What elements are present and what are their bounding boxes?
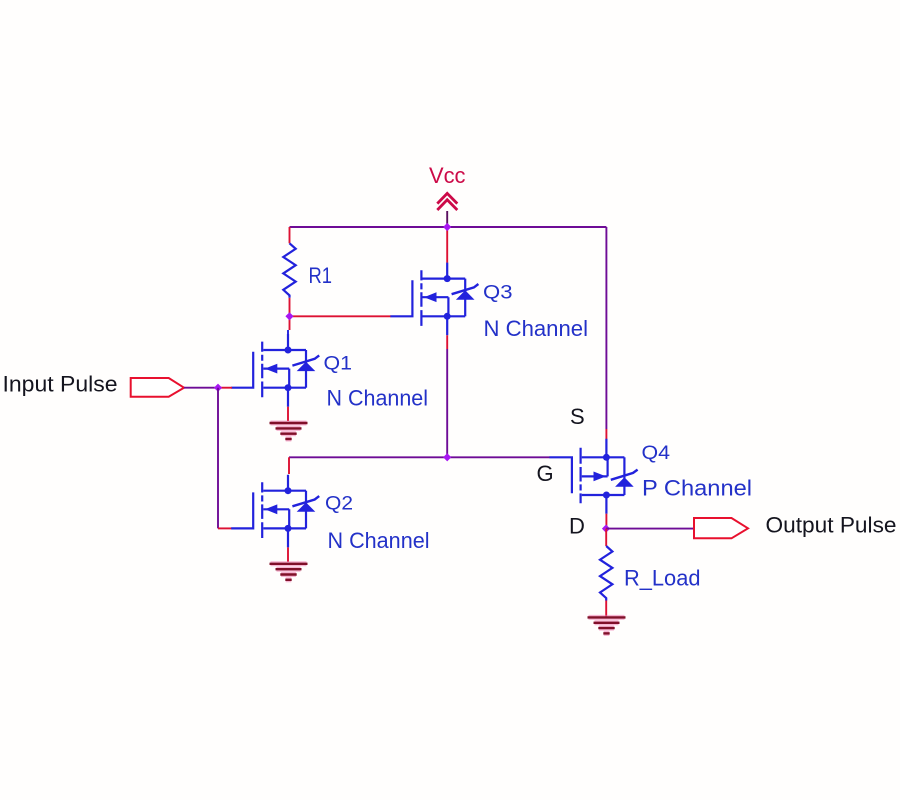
resistor R1 — [283, 243, 295, 297]
ground below R_Load — [588, 617, 626, 633]
svg-text:D: D — [569, 514, 585, 539]
svg-text:Input Pulse: Input Pulse — [3, 371, 118, 396]
wire Q3 source down red — [446, 335, 448, 349]
wire top rail Vcc net — [290, 226, 607, 228]
svg-text:G: G — [537, 461, 554, 486]
node junction Vcc rail (diamond) — [443, 223, 451, 231]
svg-text:N Channel: N Channel — [328, 528, 430, 553]
svg-text:Q1: Q1 — [324, 354, 353, 375]
ground below Q1 — [270, 423, 308, 439]
wire red Q2 source to ground — [287, 547, 289, 561]
svg-text:Q2: Q2 — [325, 494, 353, 515]
wire red Q1 source to ground — [287, 407, 289, 421]
node input junction (diamond) — [214, 384, 222, 392]
svg-text:R_Load: R_Load — [624, 566, 701, 591]
wire blue to Q1 drain — [287, 330, 289, 335]
transistor Q1 — [231, 334, 319, 407]
svg-text:R1: R1 — [309, 263, 333, 288]
transistor Q3 — [390, 263, 478, 336]
svg-text:N Channel: N Channel — [327, 386, 429, 411]
svg-text:Output Pulse: Output Pulse — [766, 513, 897, 538]
svg-text:Q3: Q3 — [483, 283, 513, 304]
wire Q3 source to gate net purple — [446, 349, 448, 457]
node junction R1 bottom (diamond) — [285, 312, 293, 320]
svg-text:S: S — [570, 404, 585, 429]
wire purple output junction to port — [606, 528, 694, 530]
power symbol Vcc double chevron — [437, 193, 457, 210]
wire red junction to Q3 gate — [290, 315, 392, 317]
wire gate net horizontal purple — [289, 456, 550, 458]
svg-text:P Channel: P Channel — [642, 476, 752, 501]
wire right rail down to Q4 source — [605, 227, 607, 429]
wire purple input junction down — [217, 388, 219, 529]
node gate net junction (diamond) — [443, 453, 451, 461]
output port symbol — [694, 518, 748, 538]
Vcc symbol stem — [446, 211, 448, 227]
wire red output junction to R_Load — [605, 529, 607, 546]
wire red right rail lower part — [605, 429, 607, 439]
node output junction (diamond) — [602, 524, 610, 532]
wire red corner down to Q2 drain — [288, 457, 290, 474]
resistor R_Load — [600, 546, 612, 601]
wire red junction to Q1 gate — [218, 387, 232, 389]
wire red R1 bottom to junction — [289, 298, 291, 317]
wire red rail to R1 top — [289, 227, 291, 243]
wire red Vcc to Q3 drain — [446, 227, 448, 263]
transistor Q4 P channel — [550, 439, 638, 514]
svg-text:N Channel: N Channel — [484, 316, 589, 341]
svg-text:Vcc: Vcc — [429, 163, 466, 188]
wire red junction down toward Q1 drain — [289, 316, 291, 330]
wire red R_Load to ground — [605, 601, 607, 617]
input port symbol — [131, 378, 184, 397]
wire red Q4 drain down — [605, 514, 607, 529]
svg-text:Q4: Q4 — [642, 443, 671, 464]
wire input port to junction — [184, 387, 218, 389]
ground below Q2 — [270, 564, 308, 580]
wire red to Q2 gate — [218, 527, 232, 529]
transistor Q2 — [231, 475, 319, 548]
